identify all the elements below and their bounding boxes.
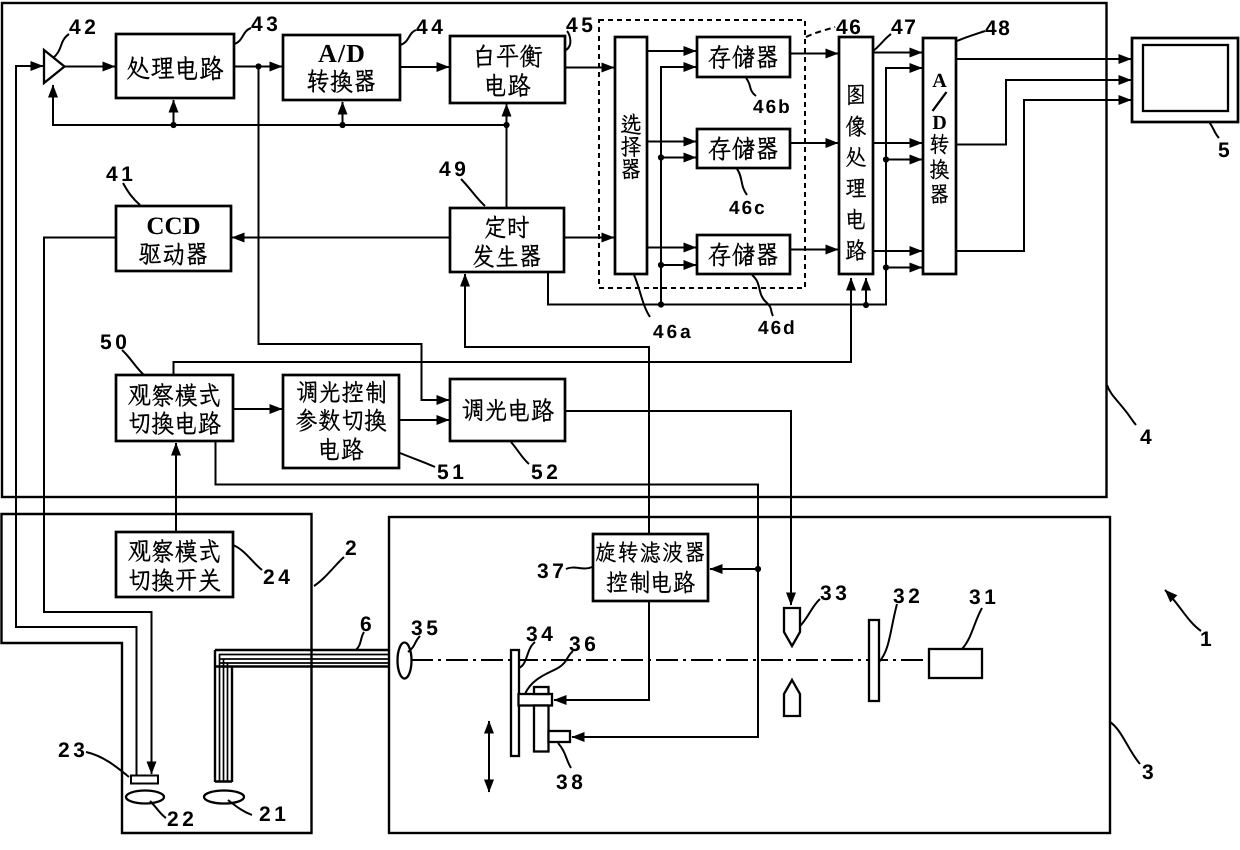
branch arrow into 37 (710, 568, 758, 570)
junction dot bus 46c (658, 154, 664, 160)
wire video to dimmer 52 (259, 67, 450, 401)
wire 46d to 47 (790, 249, 838, 251)
leader 46d (752, 275, 773, 316)
label 37 (537, 563, 562, 578)
junction dot sync 48 mid (883, 156, 889, 162)
wire CCD signal cable 23 to amplifier 42 (16, 66, 137, 776)
sync arrow up into 44 (342, 102, 344, 125)
label 51 (438, 465, 464, 480)
bus branch to 46d (661, 264, 696, 266)
light guide bundle 6 horizontal (215, 650, 388, 667)
pointer arrow 1 (1165, 590, 1201, 631)
CCD chip 23 (131, 776, 158, 784)
text 51 line1 (297, 380, 385, 403)
label 49 (439, 161, 465, 176)
wire sync from 49 bottom to 48 top input (548, 68, 922, 305)
text 48 D (933, 116, 946, 129)
text 24 line1 (128, 539, 219, 563)
wire 47 to 48 r (873, 52, 922, 54)
leader 51 (400, 453, 435, 467)
amplifier 42 (44, 50, 65, 83)
text 51 line3 (320, 437, 363, 461)
leader 22 (150, 801, 166, 818)
label 36 (569, 636, 595, 651)
wire 48 to monitor g (956, 80, 1131, 145)
leader 33 (800, 599, 820, 626)
leader 24 (233, 545, 262, 570)
leader 50 (122, 350, 144, 375)
wire 43 to 44 (234, 66, 282, 68)
bus branch to 46c (661, 157, 696, 159)
leader 35 (408, 636, 420, 652)
text 48 A (932, 74, 946, 87)
leader 46 (806, 27, 835, 37)
shutter vane 33 upper (784, 608, 800, 646)
label 52 (532, 464, 557, 479)
label 32 (893, 588, 919, 603)
leader 2 (314, 557, 344, 586)
wire 50 to 51 (233, 408, 282, 410)
light source box 3 (389, 517, 1110, 833)
box 41 CCD driver (116, 206, 231, 271)
text 41 line2 (139, 243, 207, 266)
label 43 (251, 16, 277, 31)
text 44 line1 (318, 45, 363, 62)
wire selector to memory 46d (647, 247, 696, 249)
label 42 (69, 19, 95, 34)
objective lens 21 (204, 791, 244, 804)
junction dot bus 46d (658, 262, 664, 268)
wire amplifier to 43 (64, 66, 115, 68)
infrared filter 32 (869, 620, 879, 701)
leader 3 (1110, 722, 1140, 764)
label 46a (653, 325, 691, 338)
label 3 (1142, 764, 1152, 779)
text 49 line1 (485, 215, 529, 238)
leader 38 (558, 743, 571, 768)
text 45 line1 (476, 44, 542, 68)
wire 49 to selector control (564, 237, 614, 239)
label 41 (106, 167, 132, 181)
wire 47 to 48 b (873, 250, 922, 252)
text 37 line1 (596, 541, 704, 563)
text 50 line2 (129, 411, 221, 435)
box 43 processing circuit (116, 34, 234, 98)
wire switch 24 to 50 (175, 443, 177, 532)
label 44 (416, 20, 442, 34)
motor tab (534, 687, 549, 694)
leader 23 (86, 752, 129, 777)
junction dot sync riser (503, 122, 509, 128)
box 44 A/D converter (283, 35, 400, 100)
text 48 cjk (930, 134, 949, 204)
leader 4 (1107, 385, 1136, 425)
junction dot sync 43 (170, 122, 176, 128)
junction dot sync 44 (339, 122, 345, 128)
optical axis (411, 659, 968, 661)
leader 44 (400, 30, 416, 45)
leader 46a (634, 275, 650, 317)
wire 37 to motor 36 (554, 601, 649, 700)
wire CCD drive cable 41 to 23 (44, 238, 152, 775)
sync arrow into 47 bottom (865, 278, 867, 305)
condenser lens 35 (398, 643, 412, 679)
shutter vane 33 lower (784, 680, 800, 716)
wire 45 to selector 46a (565, 67, 614, 69)
text 45 line2 (486, 73, 530, 97)
leader 5 (1209, 122, 1219, 138)
motor arm 36 (519, 694, 553, 706)
junction dot sync 47 (863, 302, 869, 308)
label 31 (969, 589, 995, 604)
wire 47 to 48 g (873, 142, 922, 144)
text 49 line2 (473, 244, 540, 267)
label 46b (753, 99, 789, 113)
illumination lens 22 (126, 791, 164, 804)
motor coupler 38 (549, 731, 571, 742)
label 38 (556, 774, 582, 789)
wire 44 to 45 (400, 66, 449, 68)
box 49 timing generator (450, 208, 564, 272)
wire mode 50 to 47 bottom (174, 278, 852, 376)
leader 43 (234, 28, 251, 44)
label 35 (411, 620, 437, 635)
wire mode 50 to motor 38 (216, 441, 759, 737)
wire 46b to 47 (790, 53, 838, 55)
leader 37 (566, 567, 592, 569)
leader 32 (879, 604, 897, 662)
leader 47 (873, 34, 891, 51)
text 46d (708, 242, 777, 266)
junction dot video branch (255, 63, 261, 69)
label 45 (566, 18, 592, 33)
wire 52 to shutter 33 (565, 411, 791, 605)
rotary filter plate 34 (511, 650, 519, 756)
monitor 5 inner (1143, 45, 1228, 111)
junction dot sync 48 low (883, 264, 889, 270)
text 46b (708, 45, 777, 69)
box 46b memory (697, 37, 790, 77)
label 46c (729, 201, 764, 214)
wire 46c to 47 (790, 142, 838, 144)
label 23 (59, 742, 84, 757)
wire 51 to 52 (399, 419, 449, 421)
text 41 line1 (148, 217, 200, 234)
text 52 (462, 398, 554, 422)
leader 45 (564, 31, 570, 51)
label 5 (1219, 143, 1229, 158)
leader 21 (228, 800, 252, 815)
text 48 slash (933, 92, 947, 111)
box 51 dimming parameter switching circuit (283, 375, 399, 468)
label 4 (1140, 430, 1151, 444)
leader 31 (962, 608, 982, 649)
label 24 (264, 569, 290, 584)
box 46a selector (615, 37, 647, 274)
label 46 (836, 19, 860, 34)
light guide bundle 6 vertical (215, 650, 232, 782)
label 1 (1201, 632, 1211, 646)
wire 48 to monitor b (956, 100, 1131, 251)
box 46c memory (697, 129, 790, 168)
label 47 (891, 20, 915, 34)
leader 48 (957, 31, 985, 41)
leader 6 (356, 632, 364, 650)
box 46d memory (697, 235, 790, 274)
leader 42 (53, 34, 69, 58)
wire selector to memory 46c (647, 141, 696, 143)
wire timing 49 up to 45 (506, 104, 508, 208)
sync feedback line to amp (53, 85, 507, 125)
junction dot mode branch (755, 566, 761, 572)
leader 34 (519, 642, 535, 668)
leader 49 (461, 179, 485, 206)
wire 48 to monitor r (956, 58, 1131, 60)
text 50 line1 (128, 383, 219, 407)
sync arrow up into 43 (173, 100, 175, 125)
text 37 line2 (607, 570, 695, 593)
filter move double arrow (488, 721, 490, 792)
wire 49 to CCD driver 41 (232, 237, 450, 239)
text 47 (846, 85, 866, 261)
wire 37 to 49 (465, 274, 649, 534)
leader 46c (737, 169, 747, 195)
box 24 observation mode switch (116, 532, 233, 597)
box 45 white balance (450, 36, 565, 103)
label 48 (985, 20, 1009, 35)
text 46a (621, 113, 641, 179)
leader 46b (746, 78, 756, 96)
text 51 line2 (296, 408, 386, 431)
monitor 5 outer (1132, 38, 1238, 122)
text 44 line2 (307, 69, 374, 93)
text 24 line2 (129, 568, 220, 592)
label 6 (361, 616, 371, 631)
motor body (534, 706, 549, 752)
sync branch to 48 mid (886, 159, 922, 161)
lamp 31 (929, 649, 982, 678)
leader 41 (123, 183, 140, 205)
label 46d (758, 320, 793, 334)
label 33 (820, 585, 846, 600)
dashed frame memory unit 46 (599, 20, 805, 288)
label 22 (168, 811, 193, 826)
box 50 observation mode switching circuit (116, 375, 233, 441)
box 37 rotary filter control circuit (593, 534, 708, 601)
junction dot bus base (658, 301, 664, 307)
label 21 (260, 806, 286, 821)
box 47 image processing circuit (839, 37, 873, 274)
text 43 (127, 55, 223, 80)
endoscope box 2 (2, 514, 312, 833)
memory write bus (661, 67, 696, 305)
sync branch to 48 low (886, 267, 922, 269)
label 2 (346, 540, 356, 555)
text 46c (708, 136, 777, 160)
label 50 (101, 334, 126, 349)
label 34 (526, 626, 552, 641)
wire selector to memory 46b (647, 50, 696, 52)
box 52 dimming circuit (450, 379, 565, 441)
leader 36 (525, 651, 573, 694)
box 48 DA converter (923, 38, 956, 274)
video processor unit box 4 (2, 3, 1107, 497)
leader 52 (511, 442, 529, 464)
